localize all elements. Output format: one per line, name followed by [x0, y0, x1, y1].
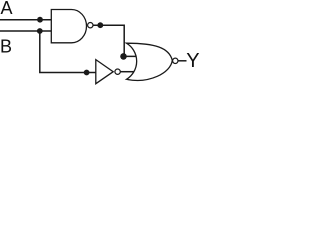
inverter U2 triangle [96, 60, 113, 84]
nand gate U1 output bubble [88, 23, 93, 28]
node: dot on NAND output wire [97, 22, 103, 28]
node: dot on wire A [37, 17, 43, 23]
wire: NOR output to Y [178, 60, 187, 62]
svg-text:B: B [0, 37, 12, 57]
nand gate U1 body [51, 9, 86, 42]
wire: inverter output to NOR pin 2 [121, 71, 136, 73]
wire: input B to NAND pin 2 [0, 30, 54, 32]
inverter U2 output bubble [115, 69, 120, 74]
node: dot at NOR top input [120, 53, 127, 60]
wire: NAND output to NOR pin 1 [93, 25, 137, 56]
svg-text:A: A [1, 0, 13, 18]
node: dot on inverter input wire [84, 70, 90, 76]
nor gate U3 output bubble [173, 58, 178, 63]
node: junction dot on wire B [37, 28, 43, 34]
wire: input A to NAND pin 1 [0, 19, 54, 21]
wire: B branch down to inverter input [40, 31, 98, 73]
nor gate U3 body [127, 43, 173, 80]
svg-text:Y: Y [186, 50, 199, 72]
